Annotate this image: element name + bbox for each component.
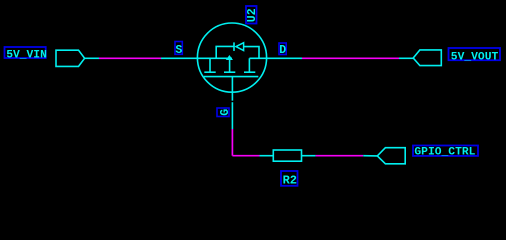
U2 pin S row — [161, 57, 232, 59]
wire 5V_VIN to U2 source — [99, 57, 161, 59]
wire U2 gate down — [231, 129, 233, 156]
U2 gate line — [204, 76, 259, 78]
pin label G box — [217, 108, 229, 117]
U2 gate stub — [231, 77, 233, 93]
U2 body diode cathode bar — [233, 42, 235, 51]
svg-text:D: D — [279, 44, 286, 57]
U2 drain stub3 — [248, 58, 250, 72]
pin label D box — [279, 43, 286, 55]
U2 gate pin upper — [231, 92, 233, 101]
resistor R2 right lead — [302, 155, 316, 157]
svg-text:S: S — [175, 44, 182, 57]
wire U2 drain to 5V_VOUT — [302, 57, 399, 59]
svg-text:5V_VIN: 5V_VIN — [6, 49, 47, 61]
op-amp U2 circle body (MOSFET) — [197, 23, 266, 92]
port GPIO_CTRL pentagon — [377, 148, 405, 164]
port GPIO_CTRL label box — [413, 146, 478, 156]
designator U2 box — [246, 6, 257, 24]
wire R2 to GPIO_CTRL — [316, 155, 364, 157]
U2 body arrow — [226, 55, 233, 60]
port GPIO_CTRL stub — [363, 155, 377, 157]
svg-text:5V_VOUT: 5V_VOUT — [451, 51, 499, 63]
svg-text:GPIO_CTRL: GPIO_CTRL — [414, 146, 475, 158]
port 5V_VIN label box — [5, 47, 46, 58]
port 5V_VOUT label box — [449, 48, 501, 60]
U2 body stub2 — [229, 58, 231, 72]
U2 pin D row — [249, 57, 302, 59]
U2 body diode wire right — [244, 47, 259, 59]
resistor R2 body — [273, 150, 301, 161]
wire gate corner to R2 — [232, 155, 259, 157]
pin label S box — [175, 42, 182, 55]
U2 channel bar2 — [224, 71, 235, 73]
U2 body diode wire left — [216, 46, 234, 58]
port 5V_VOUT stub — [399, 57, 413, 59]
svg-text:U2: U2 — [246, 8, 259, 22]
U2 body diode triangle — [236, 43, 244, 51]
U2 channel bar1 — [204, 71, 215, 73]
U2 gate pin lower — [231, 102, 233, 129]
U2 channel bar3 — [244, 71, 255, 73]
svg-text:R2: R2 — [283, 174, 297, 188]
port 5V_VIN pentagon — [56, 50, 85, 66]
resistor R2 label box — [281, 171, 298, 186]
port 5V_VOUT pentagon — [413, 50, 441, 66]
U2 source stub1 — [209, 58, 211, 72]
port 5V_VIN stub — [85, 57, 99, 59]
svg-text:G: G — [219, 109, 232, 116]
resistor R2 left lead — [260, 155, 274, 157]
